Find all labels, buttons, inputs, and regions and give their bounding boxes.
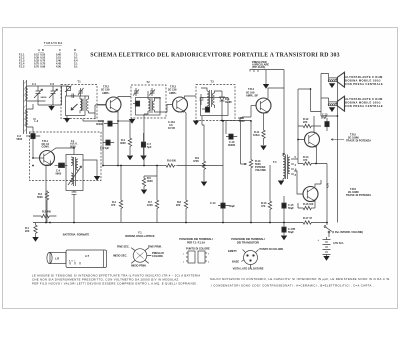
TR3 collector wire (185, 96, 197, 98)
capacitor C6 (100, 140, 114, 150)
svg-text:FINE PRIM.: FINE PRIM. (148, 245, 162, 249)
wire R4 C7 join (118, 120, 130, 122)
svg-text:POSIZIONE DEI TERMINALI: POSIZIONE DEI TERMINALI (231, 237, 265, 241)
oscillator coil label (125, 231, 155, 239)
svg-text:5µF: 5µF (147, 145, 152, 149)
svg-text:(1 Pul. INTERR. VOLUME): (1 Pul. INTERR. VOLUME) (332, 230, 363, 234)
ground under speaker 1 (329, 83, 335, 88)
resistor R1 below bus (25, 223, 37, 238)
ground under battery (323, 256, 329, 261)
ground under R11 (260, 146, 266, 151)
svg-text:50µF: 50µF (288, 230, 294, 234)
speaker 2 cone (337, 96, 344, 111)
svg-text:C.14: C.14 (210, 201, 216, 205)
svg-text:C.3: C.3 (50, 82, 55, 86)
battery pack drawing (47, 250, 107, 268)
svg-text:470: 470 (261, 204, 266, 208)
resistor R13 drop (261, 165, 272, 223)
svg-text:4,5V: 4,5V (326, 182, 330, 188)
antenna coil L2 (26, 109, 33, 127)
svg-text:AMPL.: AMPL. (102, 91, 110, 95)
svg-text:L.2: L.2 (35, 119, 39, 123)
label TR3 (168, 85, 177, 95)
svg-text:BASE: BASE (232, 260, 239, 264)
oscillator coil physical (131, 248, 151, 264)
TR4 collector wire (268, 88, 284, 99)
resistor R2 (37, 191, 49, 223)
svg-text:R.16 100: R.16 100 (303, 202, 314, 206)
wire TR5 collector to frame (313, 116, 315, 133)
ground under C7 (140, 156, 146, 161)
resistor R17 on bus (302, 216, 313, 224)
svg-text:INIZIO SEC.: INIZIO SEC. (113, 254, 127, 258)
svg-text:5600: 5600 (56, 171, 62, 175)
svg-text:30000: 30000 (96, 122, 104, 126)
T3 inner can box (201, 98, 229, 116)
TR6 emitter wire (314, 201, 316, 208)
T1 top capacitor (70, 94, 76, 99)
svg-text:1000: 1000 (147, 203, 153, 207)
T2 secondary winding (153, 98, 163, 112)
svg-text:BATTERIA FORMATE: BATTERIA FORMATE (63, 233, 90, 237)
headphone jack label (252, 60, 269, 69)
label TR5 (346, 133, 371, 143)
wire wiper feed (241, 124, 247, 165)
svg-text:F.1: F.1 (138, 231, 142, 235)
svg-text:T.4: T.4 (273, 160, 277, 164)
capacitor C5 (96, 119, 118, 126)
T2 trimmer cap left (133, 88, 139, 96)
svg-text:C: C (59, 49, 61, 52)
svg-text:BOBINA MOBILE 100Ω: BOBINA MOBILE 100Ω (345, 101, 381, 105)
svg-text:AMPL. BF: AMPL. BF (246, 93, 258, 97)
label TR1 (42, 139, 50, 149)
svg-text:R.17 47: R.17 47 (303, 216, 313, 220)
wire T1 to TR2 base (89, 105, 107, 119)
svg-text:10 5R: 10 5R (168, 126, 175, 130)
TR1 emitter wire (46, 161, 51, 223)
ground under speaker 2 (329, 107, 335, 112)
svg-text:4,5V D.C.: 4,5V D.C. (333, 241, 344, 245)
svg-text:OA85: OA85 (225, 100, 232, 104)
capacitor C17A (282, 196, 295, 223)
svg-text:4700: 4700 (193, 159, 199, 163)
ferrite antenna rod (24, 80, 27, 134)
variable capacitor C3 (49, 82, 58, 99)
svg-text:POSIZIONE DEI TERMINALI: POSIZIONE DEI TERMINALI (179, 237, 213, 241)
transistor TR1 converter (33, 151, 55, 167)
ground at jack (265, 70, 267, 85)
svg-text:VOLUME: VOLUME (255, 168, 266, 172)
speaker 1 cone (337, 72, 344, 87)
svg-text:INIZIO PRIM.: INIZIO PRIM. (131, 264, 147, 268)
svg-text:CON PRESA CENTRALE: CON PRESA CENTRALE (345, 82, 383, 86)
label TR2 (101, 85, 110, 95)
svg-text:PER FILO NUOVO I VALORI LETTI: PER FILO NUOVO I VALORI LETTI DEVONO ESS… (32, 281, 198, 285)
resistor R8 drop (176, 199, 188, 223)
svg-text:BOBINA OSCILLATRICE: BOBINA OSCILLATRICE (125, 234, 155, 238)
capacitor C9 label (239, 116, 245, 123)
capacitor C2 label (17, 134, 23, 141)
T1 inner can box (66, 96, 86, 116)
svg-text:A B: A B (38, 49, 44, 52)
resistor R14 (298, 155, 327, 165)
label TR6 (346, 187, 371, 197)
resistor R3 horizontal (33, 210, 56, 218)
oscillator trimmer arrow (68, 166, 82, 185)
terminal position label IF cans (179, 237, 213, 245)
T2 primary winding (144, 91, 150, 114)
IF can package drawing (183, 251, 210, 264)
svg-text:5600: 5600 (70, 144, 76, 148)
vertical rail x327 (326, 164, 328, 226)
oscillator coil box (66, 155, 83, 191)
svg-text:220: 220 (25, 229, 30, 233)
resistor R4 (120, 121, 132, 155)
transistor TR2 (97, 97, 121, 113)
IF transformer T2 dashed box (131, 85, 166, 118)
svg-text:0.1: 0.1 (74, 66, 78, 69)
svg-text:R.3 460: R.3 460 (42, 210, 52, 214)
TR3 emitter wire (185, 112, 187, 200)
transistor TR3 (173, 97, 188, 113)
svg-text:4.50: 4.50 (56, 66, 61, 69)
volume potentiometer R10 (249, 121, 266, 223)
svg-text:A B C: A B C (69, 260, 76, 263)
speaker 2 label (345, 97, 383, 108)
svg-text:TRASF. DI POTENZA: TRASF. DI POTENZA (346, 193, 371, 197)
headphone jack wire (250, 70, 284, 73)
speaker 2 coil (328, 102, 337, 106)
variable capacitor C1 (32, 82, 47, 99)
TR1 collector wire (52, 148, 75, 155)
transistor TR5 (305, 132, 320, 148)
svg-text:5600: 5600 (17, 137, 23, 141)
ground under C17B (281, 236, 287, 241)
ground under T4 (278, 181, 284, 186)
wire antenna top bus (38, 85, 69, 88)
IF transformer T3 dashed box (196, 85, 235, 121)
svg-text:220: 220 (176, 203, 181, 207)
svg-text:PUNTO DI COLORE: PUNTO DI COLORE (260, 247, 284, 251)
TR2 emitter wire (117, 112, 119, 166)
bottom bus wire (33, 222, 327, 224)
T4 pin stubs (291, 155, 297, 177)
ground under R4 (127, 156, 133, 161)
svg-text:220: 220 (303, 120, 308, 124)
ground under T1 box (66, 116, 68, 119)
mid bus wire (103, 165, 223, 167)
svg-text:DEI TRANSISTORI: DEI TRANSISTORI (237, 241, 259, 245)
ground under T2 box (131, 118, 133, 119)
svg-text:4600: 4600 (120, 141, 126, 145)
TR5 emitter wire to R14 (316, 147, 318, 164)
resistor R16 (298, 202, 315, 210)
svg-text:FINE SEC.: FINE SEC. (117, 245, 130, 249)
T1 secondary winding (85, 96, 89, 113)
T1 inner arrow (71, 104, 78, 110)
T3 internal capacitor (200, 94, 204, 105)
driver transformer T4 (273, 153, 290, 181)
T2 core (150, 98, 152, 113)
coupling capacitor C11 (238, 118, 243, 124)
TR6 collector wire (315, 180, 321, 187)
svg-text:R.6 600: R.6 600 (167, 159, 177, 163)
capacitor C10 (226, 134, 237, 147)
svg-text:PUNTO DI COLORE: PUNTO DI COLORE (186, 247, 210, 251)
T3 primary winding (201, 88, 209, 109)
svg-text:50µF: 50µF (229, 204, 235, 208)
pinout labels (228, 247, 284, 264)
transistor TR6 (303, 187, 318, 203)
TR2 collector wire (118, 97, 131, 98)
svg-text:CONV.: CONV. (42, 145, 50, 149)
resistor R12 (298, 117, 321, 128)
ground under T3 box (193, 121, 199, 126)
speaker wiring frame (321, 74, 337, 117)
svg-text:A.T: A.T (85, 254, 90, 258)
switch interruttore (324, 226, 332, 237)
svg-text:30000: 30000 (228, 143, 236, 147)
svg-text:BOBINA MOBILE 100Ω: BOBINA MOBILE 100Ω (345, 79, 381, 83)
svg-text:5600: 5600 (37, 195, 43, 199)
ground under R1 (32, 237, 38, 242)
svg-text:TRASF. DI POTENZA: TRASF. DI POTENZA (346, 139, 371, 143)
svg-text:L.R: L.R (55, 257, 59, 261)
T1 trimmer top-left (65, 86, 72, 97)
svg-text:0.70 0.96: 0.70 0.96 (34, 66, 46, 69)
resistor R7 drop (147, 166, 159, 223)
resistor R6 on bus (165, 159, 177, 168)
battery B1 (318, 237, 345, 256)
T2 internal blob (133, 101, 140, 106)
svg-text:T A R A T U R A: T A R A T U R A (44, 42, 62, 45)
svg-text:470: 470 (303, 158, 308, 162)
resistor R9 (193, 150, 206, 181)
TR4 base wire (242, 106, 251, 119)
svg-text:PER T.1–F.1.5A: PER T.1–F.1.5A (187, 241, 205, 245)
T3 secondary winding (213, 91, 223, 108)
oscillator dashed box (30, 132, 102, 181)
oscillator coil windings (71, 157, 73, 184)
IF transformer T1 dashed box (61, 85, 97, 119)
oscillator coil pin labels (113, 245, 164, 268)
svg-text:VISTA LATO SALDATURE: VISTA LATO SALDATURE (233, 267, 264, 271)
label diode (225, 97, 232, 104)
T1 trimmer top-right (78, 88, 84, 96)
oscillator coil label F1 (70, 139, 78, 149)
ground under R5 (141, 190, 147, 195)
svg-text:EMETT.: EMETT. (228, 249, 237, 253)
T2 bottom exit wire (143, 114, 145, 133)
resistor R5 (142, 133, 157, 189)
svg-text:CON PRESA CENTRALE: CON PRESA CENTRALE (345, 104, 383, 108)
feed wire to speakers (311, 89, 322, 112)
T1 inner winding (80, 96, 82, 113)
svg-text:(TIP JACK): (TIP JACK) (252, 65, 265, 69)
svg-text:4600: 4600 (147, 179, 153, 183)
ground right of osc box (83, 160, 97, 176)
jack vertical to T4 (283, 70, 285, 155)
footnote left (32, 273, 200, 285)
capacitor C7 (141, 133, 152, 155)
wire T3 exit to R9 (202, 125, 204, 150)
wire detector down (222, 108, 240, 134)
svg-text:F.1.5: F.1.5 (19, 66, 25, 69)
ground under variable caps (48, 106, 54, 111)
T3 internal blob (205, 107, 209, 112)
label C11A (168, 120, 175, 130)
detector diode (220, 91, 225, 108)
svg-text:ALTOPARLANTE 8 OHM: ALTOPARLANTE 8 OHM (345, 75, 383, 79)
svg-text:50µF: 50µF (288, 206, 294, 210)
T3 core (210, 90, 212, 107)
T3 bottom exit wire (201, 116, 203, 125)
wire caps bottom join (38, 86, 62, 106)
resistor R11 (253, 113, 265, 145)
svg-text:C.6 5µF: C.6 5µF (100, 146, 110, 150)
capacitor C14 (210, 201, 235, 208)
svg-text:SCHEMA ELETTRICO DEL RADIORICE: SCHEMA ELETTRICO DEL RADIORICEVITORE POR… (90, 53, 340, 59)
svg-text:AMPL.: AMPL. (169, 91, 177, 95)
svg-text:470: 470 (111, 203, 116, 207)
transistor pinout circle (241, 250, 258, 268)
transistor TR4 (251, 98, 271, 114)
svg-text:10KΩ: 10KΩ (253, 133, 260, 137)
capacitor C13 (321, 113, 329, 132)
ground under R9 (201, 182, 207, 187)
wire T4 to TR6 base (294, 171, 303, 194)
wire T4 to TR5 base (294, 89, 311, 159)
wire T2 to TR3 base (162, 105, 173, 113)
resistor R4b drop (111, 166, 123, 223)
T1 inner core (82, 99, 84, 112)
capacitor C17B below bus (282, 223, 296, 236)
AGC wire (83, 119, 103, 166)
antenna coil L1 (26, 86, 46, 101)
svg-text:I CONDENSATORI SONO COSI' CONT: I CONDENSATORI SONO COSI' CONTRASSEGNATI… (211, 283, 374, 287)
capacitor C16 below osc box (72, 191, 77, 223)
svg-text:C.1: C.1 (32, 82, 37, 86)
speaker 1 label (345, 75, 383, 86)
capacitor C2 electrolytic (26, 134, 40, 139)
label TR4 (246, 87, 258, 97)
svg-text:2A108: 2A108 (41, 96, 48, 99)
speaker 1 coil (328, 78, 337, 82)
taratura table (19, 42, 78, 69)
arrow to TR5 (331, 139, 344, 141)
T2 trimmer top (149, 88, 155, 96)
capacitor C4 blob (55, 163, 68, 175)
T2 inner can box (136, 98, 161, 116)
footnote right (210, 277, 391, 288)
wire volume top (240, 120, 251, 123)
svg-text:SALVO NOTAZIONI IN CONTRARIO,: SALVO NOTAZIONI IN CONTRARIO, LE CAPACIT… (210, 277, 391, 281)
wire drop x223 (222, 121, 224, 223)
long rail x337 (336, 116, 338, 223)
svg-text:ALTOPARLANTE 8 OHM: ALTOPARLANTE 8 OHM (345, 97, 383, 101)
wire L2 down (33, 104, 36, 158)
svg-text:D: D (74, 49, 76, 52)
transistor pinout label (231, 237, 265, 245)
svg-text:COLORE: COLORE (152, 254, 163, 258)
